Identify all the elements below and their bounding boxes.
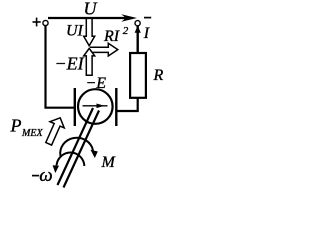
wire: top bus from + terminal with direction arrow — [48, 14, 137, 21]
svg-text:R: R — [153, 67, 164, 84]
svg-text:U: U — [84, 0, 98, 19]
svg-text:RI: RI — [103, 28, 120, 45]
node: left supply terminal — [43, 20, 48, 25]
svg-text:P: P — [10, 116, 22, 136]
svg-text:ω: ω — [39, 165, 52, 186]
terminal - (negative pole) — [144, 17, 151, 19]
wire: right branch from - terminal down to resistor — [136, 26, 138, 54]
power-flow arrow -EI (returned EMF power, up) — [84, 48, 95, 75]
torque arrow M (curved, head right) — [60, 138, 98, 158]
svg-text:2: 2 — [123, 25, 129, 37]
label -omega — [32, 175, 39, 177]
terminal + (positive pole) — [33, 18, 41, 27]
wire: left branch down and to left brush — [46, 26, 75, 108]
brush right — [115, 88, 117, 126]
node: right supply terminal — [135, 21, 140, 26]
power-flow arrow RI^2 (loss to resistor) — [90, 43, 118, 56]
power-flow arrow UI (input power, down) — [84, 18, 95, 46]
svg-text:MEX: MEX — [21, 128, 43, 139]
current arrow I (up) — [135, 26, 141, 33]
svg-text:−EI: −EI — [55, 54, 85, 74]
svg-text:−E: −E — [86, 75, 107, 92]
svg-text:I: I — [143, 25, 150, 42]
svg-text:M: M — [101, 154, 117, 171]
shaft (double line) — [58, 108, 100, 188]
speed arrow -omega (curved, head left) — [53, 152, 85, 173]
svg-text:UI: UI — [66, 23, 84, 40]
wire: resistor bottom to right brush — [117, 97, 138, 111]
mechanical power arrow P_MEX (hollow, up-right) — [46, 118, 64, 145]
resistor R — [130, 53, 146, 98]
armature current arrow inside machine — [83, 104, 108, 109]
brush left — [74, 88, 76, 126]
machine M1 (DC machine armature circle) — [78, 89, 113, 124]
